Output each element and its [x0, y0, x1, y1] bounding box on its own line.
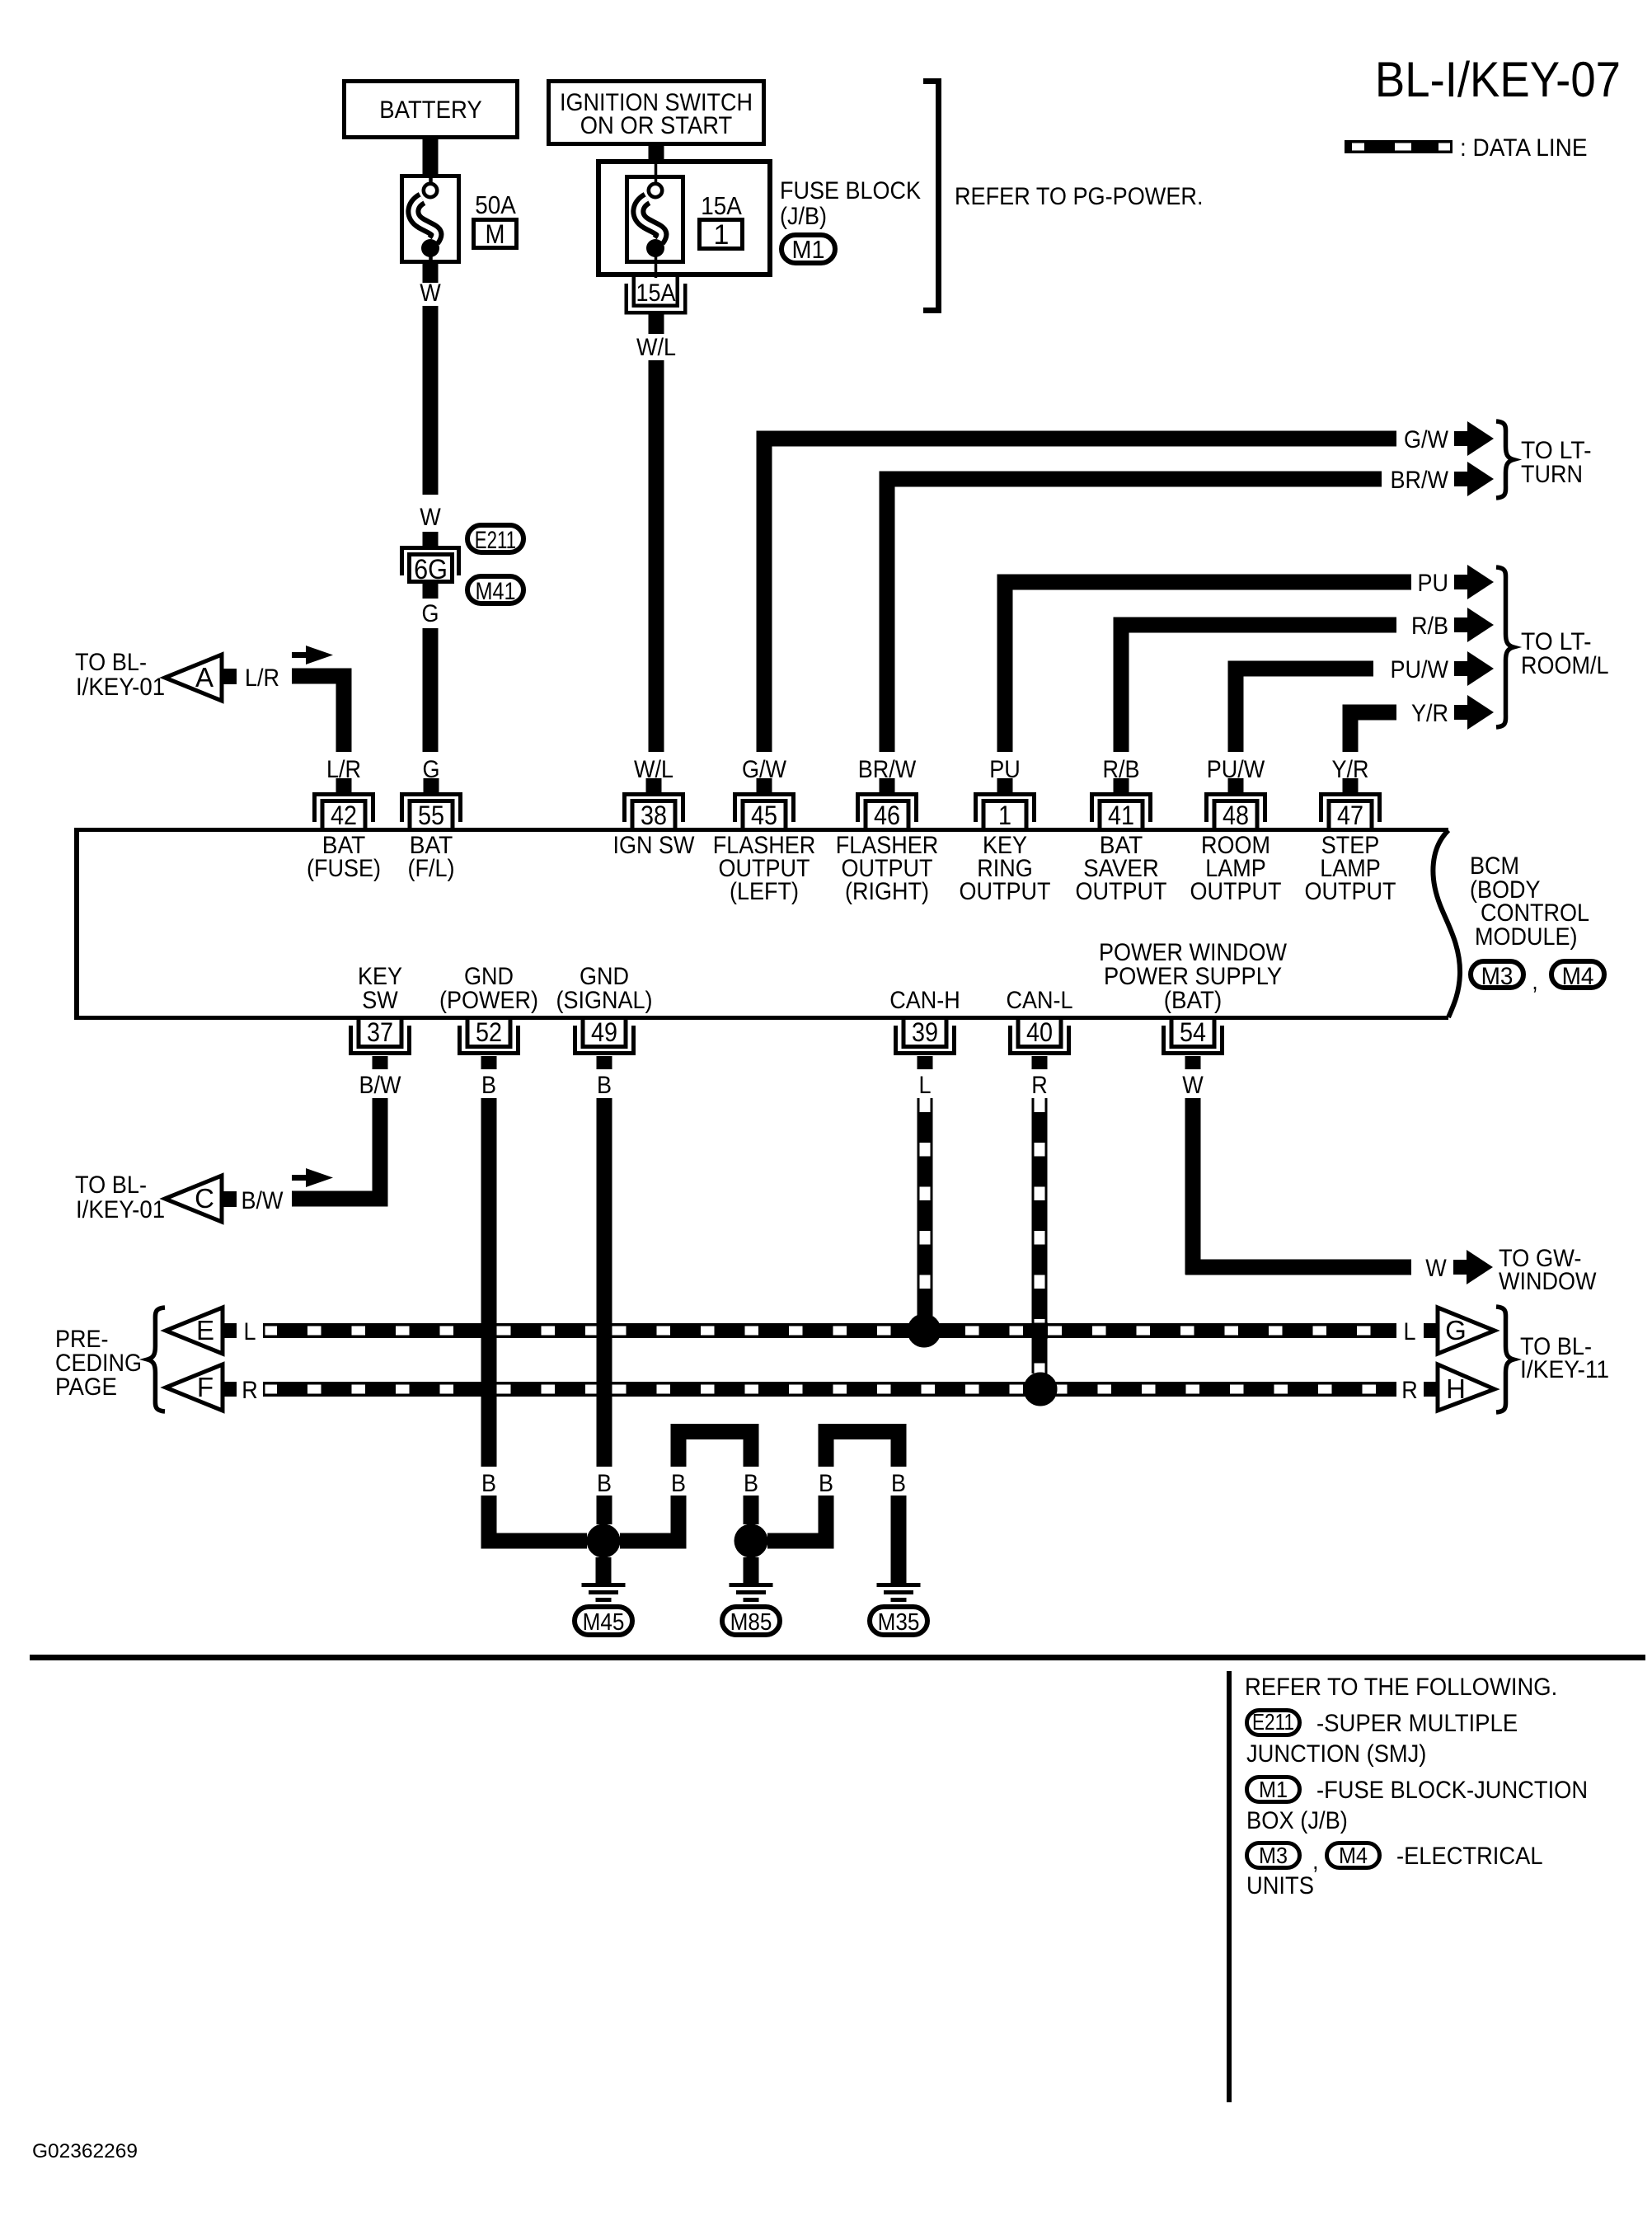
- brace preceding page: [148, 1308, 165, 1411]
- note REFER TO PG-POWER.: [955, 183, 1204, 210]
- oval M1 (note): [1247, 1777, 1300, 1802]
- wire ignition switch to fuse block: [649, 146, 664, 159]
- fuse box M: [474, 219, 517, 249]
- oval M4: [1551, 961, 1604, 990]
- svg-text:F: F: [197, 1372, 214, 1402]
- connector 15A below fuse block: [625, 277, 688, 315]
- svg-text:-SUPER MULTIPLE: -SUPER MULTIPLE: [1316, 1710, 1518, 1737]
- wire stub below 6G: [423, 584, 439, 599]
- svg-text:B: B: [819, 1470, 833, 1497]
- figure number G02362269: [32, 2140, 138, 2162]
- fuse block J/B outer box: [598, 162, 770, 275]
- wire stub above 6G: [423, 532, 439, 546]
- label B (wire 52): [481, 1470, 496, 1497]
- arrow BR/W off-page: [1454, 462, 1494, 496]
- wire G/W vertical from BCM: [757, 439, 772, 752]
- wire loop1 left leg to M45: [620, 1496, 687, 1549]
- svg-text:G: G: [422, 600, 439, 627]
- label G/W (above pin): [742, 756, 787, 783]
- svg-text:55: 55: [418, 801, 444, 830]
- wire stub below pin 54: [1185, 1056, 1201, 1069]
- brace TO LT-ROOM/L: [1496, 567, 1514, 727]
- junction CAN-L on R line: [1024, 1373, 1058, 1406]
- svg-text:B: B: [671, 1470, 686, 1497]
- ground M85: [722, 1557, 780, 1636]
- fuse 50A M (battery fuse): [402, 175, 459, 264]
- junction M45: [587, 1524, 621, 1558]
- svg-text:R/B: R/B: [1411, 613, 1448, 640]
- label TO LT-TURN: [1521, 437, 1592, 488]
- label W (right end): [1425, 1255, 1447, 1282]
- svg-text:OUTPUT: OUTPUT: [1076, 878, 1167, 905]
- label TO LT-ROOM/L: [1521, 628, 1609, 679]
- wire stub below pin 49: [597, 1056, 612, 1069]
- svg-text:BATTERY: BATTERY: [379, 96, 482, 124]
- svg-text:(FUSE): (FUSE): [307, 855, 381, 882]
- label R (right end): [1401, 1377, 1418, 1404]
- wire B from pin 52 (upper): [481, 1098, 497, 1467]
- label W/L (above pin 38): [634, 756, 673, 783]
- comma between M3 M4: [1532, 968, 1538, 995]
- connector pin 39 (BCM bottom): [894, 1017, 956, 1055]
- junction CAN-H on L line: [908, 1314, 941, 1348]
- svg-text:15A: 15A: [636, 279, 676, 307]
- svg-text:PU: PU: [1418, 570, 1449, 597]
- connector pin 49 (BCM bottom): [573, 1017, 636, 1055]
- triangle connector E: [166, 1308, 223, 1354]
- arrow Y/R off-page: [1454, 695, 1494, 730]
- label pin 52 function: [439, 963, 538, 1014]
- label pin 38 function: [613, 832, 696, 859]
- label B/W (below pin 37): [359, 1072, 402, 1099]
- wire PU/W vertical from BCM: [1228, 669, 1244, 752]
- svg-text:W: W: [420, 504, 441, 531]
- connector pin 42 (BCM top): [312, 792, 375, 830]
- label pin 1 function: [960, 832, 1051, 905]
- wire G 6G to connector 55: [423, 628, 439, 752]
- label L (right end): [1404, 1318, 1416, 1345]
- wire W/L to connector 38: [649, 360, 664, 752]
- connector pin 1 (BCM top): [974, 792, 1036, 830]
- connector pin 48 (BCM top): [1204, 792, 1267, 830]
- svg-text:39: 39: [912, 1017, 938, 1047]
- note ELECTRICAL UNITS: [1246, 1843, 1543, 1899]
- wire stub above pin (R/B): [1114, 778, 1129, 792]
- wire CAN-L dashed (R): [1032, 1098, 1048, 1373]
- connector pin 46 (BCM top): [856, 792, 918, 830]
- svg-text:B/W: B/W: [359, 1072, 402, 1099]
- svg-text:(F/L): (F/L): [408, 855, 455, 882]
- svg-text:ROOM/L: ROOM/L: [1521, 652, 1609, 679]
- label W/L (below fuse block): [636, 334, 676, 361]
- svg-text:B/W: B/W: [242, 1187, 284, 1214]
- svg-text:OUTPUT: OUTPUT: [1190, 878, 1282, 905]
- svg-text:REFER TO THE FOLLOWING.: REFER TO THE FOLLOWING.: [1245, 1674, 1557, 1701]
- label R (left end): [242, 1377, 258, 1404]
- wire PU horizontal: [997, 575, 1412, 590]
- wire stub above pin 55: [424, 778, 439, 792]
- svg-text:M4: M4: [1339, 1843, 1368, 1868]
- svg-text:I/KEY-01: I/KEY-01: [76, 674, 165, 701]
- ground loop 2 (inverted U): [819, 1424, 907, 1467]
- label BR/W (right end): [1391, 467, 1449, 494]
- svg-text:M1: M1: [792, 235, 825, 264]
- svg-text:H: H: [1446, 1373, 1466, 1404]
- wire B/W vertical from pin 37: [373, 1098, 388, 1207]
- label R (below pin 40): [1031, 1072, 1048, 1099]
- svg-text:TURN: TURN: [1521, 461, 1583, 488]
- oval M3 (note): [1247, 1843, 1300, 1868]
- svg-text:(J/B): (J/B): [780, 203, 827, 230]
- svg-text:R: R: [1401, 1377, 1418, 1404]
- svg-text:41: 41: [1108, 801, 1134, 830]
- svg-text:PAGE: PAGE: [55, 1373, 117, 1401]
- wire stub above pin (Y/R): [1343, 778, 1359, 792]
- label TO BL-I/KEY-11: [1520, 1333, 1609, 1383]
- junction M85: [734, 1524, 768, 1558]
- label BCM (BODY CONTROL MODULE): [1470, 852, 1589, 951]
- label G (below 6G): [422, 600, 439, 627]
- svg-text:I/KEY-01: I/KEY-01: [76, 1196, 165, 1223]
- svg-text:G: G: [1445, 1315, 1467, 1345]
- svg-text:G02362269: G02362269: [32, 2140, 138, 2162]
- data line legend symbol: [1345, 134, 1588, 162]
- data line R: [263, 1373, 1396, 1406]
- svg-text:W: W: [420, 279, 441, 307]
- arrow R/B off-page: [1454, 608, 1494, 642]
- note FUSE BLOCK-JUNCTION BOX (J/B): [1246, 1777, 1588, 1834]
- svg-text:W: W: [1425, 1255, 1447, 1282]
- ignition switch box: [549, 82, 764, 144]
- svg-text:W: W: [1182, 1072, 1204, 1099]
- wire stub below pin 39: [918, 1056, 933, 1069]
- svg-text:L: L: [1404, 1318, 1416, 1345]
- label Y/R (above pin): [1332, 756, 1369, 783]
- label Y/R (right end): [1411, 700, 1448, 727]
- label pin 54 function: [1099, 939, 1288, 1014]
- bracket ] fuse block group: [923, 78, 941, 313]
- label W (below pin 54): [1182, 1072, 1204, 1099]
- svg-text:45: 45: [751, 801, 777, 830]
- svg-text:M1: M1: [1259, 1777, 1288, 1802]
- svg-text:40: 40: [1026, 1017, 1053, 1047]
- svg-text:E211: E211: [475, 527, 516, 554]
- svg-text:Y/R: Y/R: [1411, 700, 1448, 727]
- ground loop 1 (inverted U): [671, 1424, 759, 1467]
- svg-text:ON OR START: ON OR START: [580, 112, 733, 139]
- wire stub at H: [1424, 1382, 1438, 1397]
- wire BR/W horizontal: [880, 472, 1382, 487]
- oval M3: [1471, 961, 1523, 990]
- wire stub below pin 40: [1032, 1056, 1048, 1069]
- svg-text:I/KEY-11: I/KEY-11: [1520, 1356, 1609, 1383]
- wire stub above pin 42: [336, 778, 352, 792]
- svg-text:49: 49: [591, 1017, 617, 1047]
- svg-text:BOX (J/B): BOX (J/B): [1246, 1807, 1348, 1834]
- svg-text:: DATA LINE: : DATA LINE: [1460, 134, 1588, 162]
- label L/R (at A): [245, 664, 279, 692]
- triangle connector G: [1438, 1308, 1495, 1354]
- svg-text:B: B: [597, 1072, 612, 1099]
- svg-text:,: ,: [1532, 968, 1538, 995]
- note SUPER MULTIPLE JUNCTION (SMJ): [1246, 1710, 1518, 1768]
- wire stub above pin 38: [646, 778, 662, 792]
- label G/W (right end): [1404, 426, 1449, 453]
- wire W battery fuse to 6G: [423, 306, 439, 495]
- notes divider line: [1227, 1671, 1232, 2102]
- wire stub above pin (PU): [997, 778, 1013, 792]
- svg-text:54: 54: [1180, 1017, 1206, 1047]
- connector pin 40 (BCM bottom): [1008, 1017, 1071, 1055]
- wire BR/W vertical from BCM: [880, 479, 895, 752]
- wire B/W horizontal to C: [292, 1191, 388, 1207]
- label PU/W (right end): [1391, 656, 1449, 683]
- svg-text:(SIGNAL): (SIGNAL): [556, 987, 653, 1014]
- label 50A: [475, 190, 516, 219]
- svg-text:(LEFT): (LEFT): [730, 878, 799, 905]
- svg-text:L: L: [244, 1318, 256, 1345]
- oval E211: [467, 525, 523, 554]
- ground M45: [575, 1557, 632, 1636]
- arrow W off-page: [1453, 1250, 1493, 1284]
- wire Y/R vertical from BCM: [1343, 712, 1359, 752]
- wire W stub below battery fuse: [423, 264, 439, 283]
- svg-text:(POWER): (POWER): [439, 987, 538, 1014]
- wire stub at E: [223, 1323, 237, 1338]
- svg-text:OUTPUT: OUTPUT: [1305, 878, 1396, 905]
- label B (loop1 right): [744, 1470, 758, 1497]
- wire stub below pin 37: [373, 1056, 388, 1069]
- svg-text:6G: 6G: [414, 554, 448, 585]
- direction arrow right (A wire): [292, 646, 333, 664]
- wire R/B vertical from BCM: [1114, 625, 1129, 752]
- svg-text:FUSE BLOCK: FUSE BLOCK: [780, 177, 921, 204]
- wire stub at G: [1424, 1323, 1438, 1338]
- svg-text:M3: M3: [1259, 1843, 1288, 1868]
- wire loop2 right leg to M35: [891, 1496, 907, 1583]
- svg-text:BL-I/KEY-07: BL-I/KEY-07: [1375, 52, 1621, 107]
- svg-text:MODULE): MODULE): [1475, 923, 1578, 951]
- svg-text:-ELECTRICAL: -ELECTRICAL: [1396, 1843, 1543, 1870]
- wire W from pin 54: [1185, 1098, 1412, 1275]
- svg-text:REFER TO PG-POWER.: REFER TO PG-POWER.: [955, 183, 1204, 210]
- data line L: [263, 1314, 1396, 1348]
- label BR/W (above pin): [858, 756, 917, 783]
- svg-text:IGN SW: IGN SW: [613, 832, 696, 859]
- svg-text:WINDOW: WINDOW: [1499, 1268, 1597, 1295]
- svg-text:(BAT): (BAT): [1164, 987, 1223, 1014]
- triangle connector C: [165, 1176, 222, 1222]
- wire loop1 right leg to M85: [744, 1496, 759, 1524]
- wire stub at F: [223, 1382, 237, 1397]
- svg-text:B: B: [481, 1072, 496, 1099]
- wire battery to fuse: [423, 139, 439, 174]
- svg-text:R: R: [242, 1377, 258, 1404]
- label pin 37 function: [358, 963, 402, 1014]
- fuse 15A 1 (ignition fuse): [627, 162, 683, 278]
- svg-text:OUTPUT: OUTPUT: [960, 878, 1051, 905]
- svg-text:G/W: G/W: [1404, 426, 1449, 453]
- svg-text:TO BL-: TO BL-: [75, 1172, 147, 1199]
- brace TO BL-I/KEY-11: [1496, 1307, 1514, 1412]
- svg-text:15A: 15A: [701, 191, 742, 220]
- svg-text:-FUSE BLOCK-JUNCTION: -FUSE BLOCK-JUNCTION: [1316, 1777, 1588, 1804]
- svg-text:M45: M45: [583, 1609, 625, 1636]
- label PU (right end): [1418, 570, 1449, 597]
- svg-text:CAN-H: CAN-H: [889, 987, 960, 1014]
- svg-text:M: M: [486, 219, 505, 249]
- svg-text:JUNCTION (SMJ): JUNCTION (SMJ): [1246, 1740, 1426, 1768]
- fuse position box 1: [700, 219, 743, 251]
- svg-text:B: B: [481, 1470, 496, 1497]
- connector pin 47 (BCM top): [1319, 792, 1382, 830]
- label TO GW-WINDOW: [1499, 1245, 1597, 1295]
- label B (loop2 right): [891, 1470, 906, 1497]
- label L (left end): [244, 1318, 256, 1345]
- label pin 46 function: [836, 832, 939, 905]
- wire L/R vertical to pin 42: [336, 669, 352, 752]
- wire stub at A: [222, 669, 237, 684]
- BCM module box: [74, 828, 1460, 1020]
- label pin 47 function: [1305, 832, 1396, 905]
- svg-text:L/R: L/R: [245, 664, 279, 692]
- wire L/R horizontal from A: [292, 669, 352, 684]
- svg-text:M3: M3: [1481, 963, 1514, 990]
- wire stub at C: [222, 1191, 237, 1207]
- oval E211 (note): [1247, 1709, 1300, 1735]
- note REFER TO THE FOLLOWING.: [1245, 1674, 1557, 1701]
- svg-text:TO BL-: TO BL-: [75, 649, 147, 676]
- svg-text:37: 37: [367, 1017, 393, 1047]
- label B/W (at C): [242, 1187, 284, 1214]
- wire stub above pin (PU/W): [1228, 778, 1244, 792]
- wire PU vertical from BCM: [997, 582, 1013, 752]
- label PRECEDING PAGE: [55, 1326, 142, 1401]
- arrow PU off-page: [1454, 565, 1494, 599]
- svg-text:38: 38: [641, 801, 667, 830]
- wire B from pin 49 (upper): [597, 1098, 612, 1467]
- label B (below pin 52): [481, 1072, 496, 1099]
- label B (wire 49): [597, 1470, 612, 1497]
- wire G/W horizontal: [757, 431, 1397, 447]
- label PU/W (above pin): [1207, 756, 1265, 783]
- svg-text:42: 42: [331, 801, 357, 830]
- label pin 41 function: [1076, 832, 1167, 905]
- svg-text:(RIGHT): (RIGHT): [845, 878, 929, 905]
- label pin 40 function: [1007, 987, 1073, 1014]
- connector pin 45 (BCM top): [733, 792, 795, 830]
- wire Y/R horizontal: [1343, 705, 1397, 721]
- label G (above pin 55): [423, 756, 440, 783]
- wire stub above pin (BR/W): [880, 778, 895, 792]
- connector pin 41 (BCM top): [1090, 792, 1152, 830]
- connector pin 37 (BCM bottom): [349, 1017, 411, 1055]
- svg-text:L: L: [919, 1072, 932, 1099]
- svg-text:CAN-L: CAN-L: [1007, 987, 1073, 1014]
- wire stub above pin (G/W): [757, 778, 772, 792]
- svg-text:C: C: [195, 1183, 214, 1214]
- label W (above 6G): [420, 504, 441, 531]
- wire loop2 left leg to M85: [767, 1496, 834, 1549]
- label TO BL-I/KEY-01 (A): [75, 649, 165, 701]
- label pin 45 function: [713, 832, 816, 905]
- svg-text:SW: SW: [362, 987, 398, 1014]
- direction arrow right (C wire): [292, 1168, 333, 1187]
- brace TO LT-TURN: [1496, 421, 1514, 498]
- svg-text:,: ,: [1312, 1848, 1319, 1875]
- svg-text:M41: M41: [476, 578, 516, 605]
- label B (below pin 49): [597, 1072, 612, 1099]
- label B (loop2 left): [819, 1470, 833, 1497]
- svg-text:M85: M85: [730, 1609, 772, 1636]
- svg-text:PU/W: PU/W: [1391, 656, 1449, 683]
- connector pin 38 (BCM top): [622, 792, 685, 830]
- svg-text:A: A: [195, 662, 214, 693]
- connector pin 54 (BCM bottom): [1162, 1017, 1224, 1055]
- oval M41: [467, 576, 523, 605]
- oval M1: [781, 235, 835, 264]
- svg-text:52: 52: [476, 1017, 502, 1047]
- label TO BL-I/KEY-01 (C): [75, 1172, 165, 1223]
- separator line: [30, 1655, 1645, 1660]
- label pin 55 function: [408, 832, 455, 882]
- triangle connector A: [165, 655, 222, 701]
- wire B from pin 49 (lower): [597, 1496, 612, 1524]
- label pin 42 function: [307, 832, 381, 882]
- label L (below pin 39): [919, 1072, 932, 1099]
- arrow PU/W off-page: [1454, 651, 1494, 686]
- svg-text:1: 1: [714, 219, 730, 251]
- label R/B (right end): [1411, 613, 1448, 640]
- triangle connector H: [1438, 1364, 1495, 1411]
- label B (loop1 left): [671, 1470, 686, 1497]
- svg-text:M35: M35: [878, 1609, 920, 1636]
- wire CAN-H dashed (L): [918, 1098, 933, 1316]
- svg-text:R: R: [1031, 1072, 1048, 1099]
- label pin 49 function: [556, 963, 653, 1014]
- label PU (above pin): [989, 756, 1021, 783]
- connector pin 52 (BCM bottom): [458, 1017, 520, 1055]
- oval M4 (note): [1327, 1843, 1380, 1868]
- wire R/B horizontal: [1114, 617, 1397, 633]
- wire stub below 15A connector: [649, 314, 664, 334]
- svg-text:UNITS: UNITS: [1246, 1872, 1314, 1899]
- svg-text:48: 48: [1223, 801, 1249, 830]
- ground M35: [870, 1583, 927, 1636]
- label pin 39 function: [889, 987, 960, 1014]
- wire B from pin 52 (lower corner): [481, 1496, 588, 1549]
- svg-text:B: B: [891, 1470, 906, 1497]
- wire PU/W horizontal: [1228, 661, 1374, 677]
- label W (below battery fuse): [420, 279, 441, 307]
- svg-text:W/L: W/L: [636, 334, 676, 361]
- label FUSE BLOCK (J/B): [780, 177, 921, 230]
- svg-text:B: B: [597, 1470, 612, 1497]
- arrow G/W off-page: [1454, 421, 1494, 456]
- label R/B (above pin): [1103, 756, 1140, 783]
- label L/R (above pin 42): [326, 756, 361, 783]
- svg-text:47: 47: [1337, 801, 1363, 830]
- label 15A (fuse rating): [701, 191, 742, 220]
- svg-text:50A: 50A: [475, 190, 516, 219]
- title BL-I/KEY-07: [1375, 52, 1621, 107]
- connector pin 55 (BCM top): [400, 792, 462, 830]
- connector 6G (SMJ): [400, 546, 461, 585]
- svg-text:1: 1: [998, 801, 1011, 830]
- label pin 48 function: [1190, 832, 1282, 905]
- wire stub below pin 52: [481, 1056, 497, 1069]
- svg-text:B: B: [744, 1470, 758, 1497]
